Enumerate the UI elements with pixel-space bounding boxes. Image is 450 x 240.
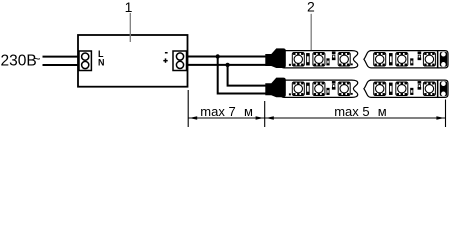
arrowhead left of dim 5: [266, 116, 274, 120]
terminal N screw: [82, 61, 89, 68]
dimension label max 7 m: [200, 104, 253, 119]
terminal L screw: [82, 53, 89, 60]
arrowhead right of dim 5: [436, 116, 444, 120]
dimension line max 7 m: [188, 117, 265, 119]
wire branch minus to lower strip: [218, 57, 266, 94]
leader line 2: [310, 14, 312, 50]
wire plus output: [186, 64, 266, 66]
svg-text:1: 1: [125, 0, 133, 15]
label minus: [165, 52, 168, 54]
dimension boundary at strip start: [264, 101, 266, 127]
arrowhead left of dim 7: [189, 116, 197, 120]
upper strip segment 2: [364, 51, 448, 68]
svg-text:max 7: max 7: [200, 104, 235, 119]
terminal minus screw: [176, 53, 183, 60]
lower strip segment 2: [364, 80, 448, 97]
svg-text:230В: 230В: [1, 53, 37, 70]
svg-text:~: ~: [33, 51, 41, 66]
svg-text:м: м: [378, 104, 387, 119]
label plus: [163, 58, 167, 62]
wire L input: [43, 56, 81, 58]
upper strip segment 1: [281, 51, 358, 68]
svg-text:м: м: [244, 104, 253, 119]
svg-text:2: 2: [307, 0, 315, 15]
wire minus output: [186, 56, 266, 58]
svg-text:N: N: [98, 58, 105, 68]
wire N input: [43, 64, 81, 66]
svg-text:max 5: max 5: [334, 104, 369, 119]
upper strip connector: [265, 48, 286, 68]
power supply box 1: [78, 35, 188, 87]
lower strip connector: [265, 78, 286, 98]
terminal plus screw: [176, 61, 183, 68]
dimension label max 5 m: [334, 104, 387, 119]
arrowhead right of dim 7: [256, 116, 264, 120]
junction dot on plus wire: [225, 63, 229, 67]
input terminal block: [79, 51, 91, 71]
dimension boundary at strip end: [445, 100, 447, 128]
output terminal block: [173, 51, 187, 71]
label 230V: [1, 51, 42, 69]
dimension boundary at PSU: [187, 90, 189, 127]
junction dot on minus wire: [216, 54, 220, 58]
dimension line max 5 m: [265, 117, 446, 119]
leader line 1: [129, 13, 131, 42]
lower strip segment 1: [281, 80, 358, 97]
wire branch plus to lower strip: [228, 65, 266, 86]
